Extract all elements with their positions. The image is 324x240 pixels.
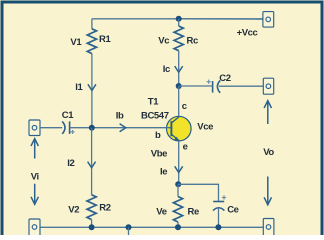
svg-text:Vi: Vi [31, 172, 39, 183]
svg-text:Vo: Vo [263, 147, 274, 158]
svg-text:Re: Re [188, 206, 199, 217]
terminal input bottom [29, 219, 40, 236]
wire Rc top lead [178, 19, 180, 26]
node Ce ground junction [215, 224, 221, 230]
transistor base bar [170, 121, 172, 136]
svg-text:R2: R2 [99, 202, 110, 213]
svg-text:Vc: Vc [158, 36, 169, 47]
resistor Re [173, 197, 182, 223]
svg-text:I2: I2 [67, 158, 74, 169]
svg-text:Ib: Ib [116, 110, 124, 121]
wire collector to C2 [179, 85, 212, 87]
terminal output top [263, 78, 273, 94]
arrow I1 current [88, 84, 96, 90]
terminal +Vcc [263, 12, 274, 28]
node top rail junction [176, 16, 182, 22]
wire R1 top lead [91, 19, 93, 29]
node emitter junction [175, 181, 181, 187]
arrow Ic current [175, 66, 183, 72]
transistor emitter arrowhead [174, 137, 179, 141]
svg-text:C2: C2 [219, 73, 230, 84]
wire base lead [70, 127, 172, 129]
arrow Vo down [264, 177, 271, 205]
svg-text:BC547: BC547 [141, 110, 169, 121]
resistor R1 [87, 29, 96, 54]
wire Re top lead [177, 184, 179, 196]
wire ground stub [128, 227, 130, 235]
node Re ground junction [175, 224, 181, 230]
wire Rc bottom lead [178, 51, 180, 86]
svg-text:R1: R1 [99, 34, 111, 45]
node base junction [89, 125, 95, 131]
label C2 plus polarity [207, 80, 211, 84]
svg-text:C1: C1 [62, 110, 74, 121]
svg-text:+Vcc: +Vcc [237, 27, 258, 38]
transistor emitter stroke [171, 134, 179, 141]
svg-text:Vce: Vce [197, 121, 213, 132]
svg-text:Ce: Ce [227, 205, 238, 216]
node collector junction [176, 83, 182, 89]
transistor T1 BC547 body [167, 116, 192, 141]
svg-text:e: e [183, 142, 188, 153]
svg-text:b: b [155, 130, 161, 141]
arrow Ie current [175, 166, 183, 172]
svg-text:Ve: Ve [156, 206, 166, 217]
wire emitter vertical [178, 141, 180, 185]
capacitor Ce [213, 202, 224, 211]
wire +Vcc lead [179, 18, 263, 20]
terminal input top [29, 120, 40, 136]
wire R2 bottom lead [91, 220, 93, 228]
wire bottom ground rail [40, 226, 263, 228]
node ground stub junction [126, 224, 132, 230]
arrow I2 current [88, 162, 96, 168]
capacitor C2 [213, 80, 221, 93]
resistor R2 [87, 195, 96, 220]
wire collector vertical [178, 86, 180, 117]
capacitor C1 [62, 121, 69, 133]
label Ce plus polarity [222, 195, 226, 199]
wire R1 bottom lead [91, 54, 93, 128]
svg-text:V1: V1 [70, 37, 82, 48]
wire Re bottom lead [177, 222, 179, 227]
wire R2 top lead [91, 128, 93, 195]
wire top supply rail [92, 18, 263, 20]
arrow Vo up [264, 101, 271, 124]
svg-text:c: c [182, 101, 187, 112]
node R2 ground junction [89, 224, 95, 230]
svg-text:T1: T1 [148, 96, 159, 107]
arrow Vi down [31, 184, 38, 205]
arrow Ib current [120, 124, 126, 132]
resistor Rc [174, 26, 183, 51]
svg-text:Ic: Ic [163, 64, 170, 75]
transistor collector stroke [171, 117, 179, 123]
wire C2 to output [219, 85, 263, 87]
wire Ce bottom lead [218, 208, 220, 227]
wire input to C1 [40, 127, 62, 129]
svg-text:I1: I1 [75, 82, 83, 93]
svg-text:Ie: Ie [160, 166, 167, 177]
wire emitter to Ce [178, 184, 218, 201]
arrow Vi up [31, 139, 38, 159]
svg-text:Rc: Rc [187, 36, 198, 47]
svg-text:Vbe: Vbe [151, 148, 167, 159]
svg-text:V2: V2 [68, 204, 79, 215]
terminal output bottom [263, 219, 274, 237]
label C1 plus polarity [71, 130, 75, 134]
